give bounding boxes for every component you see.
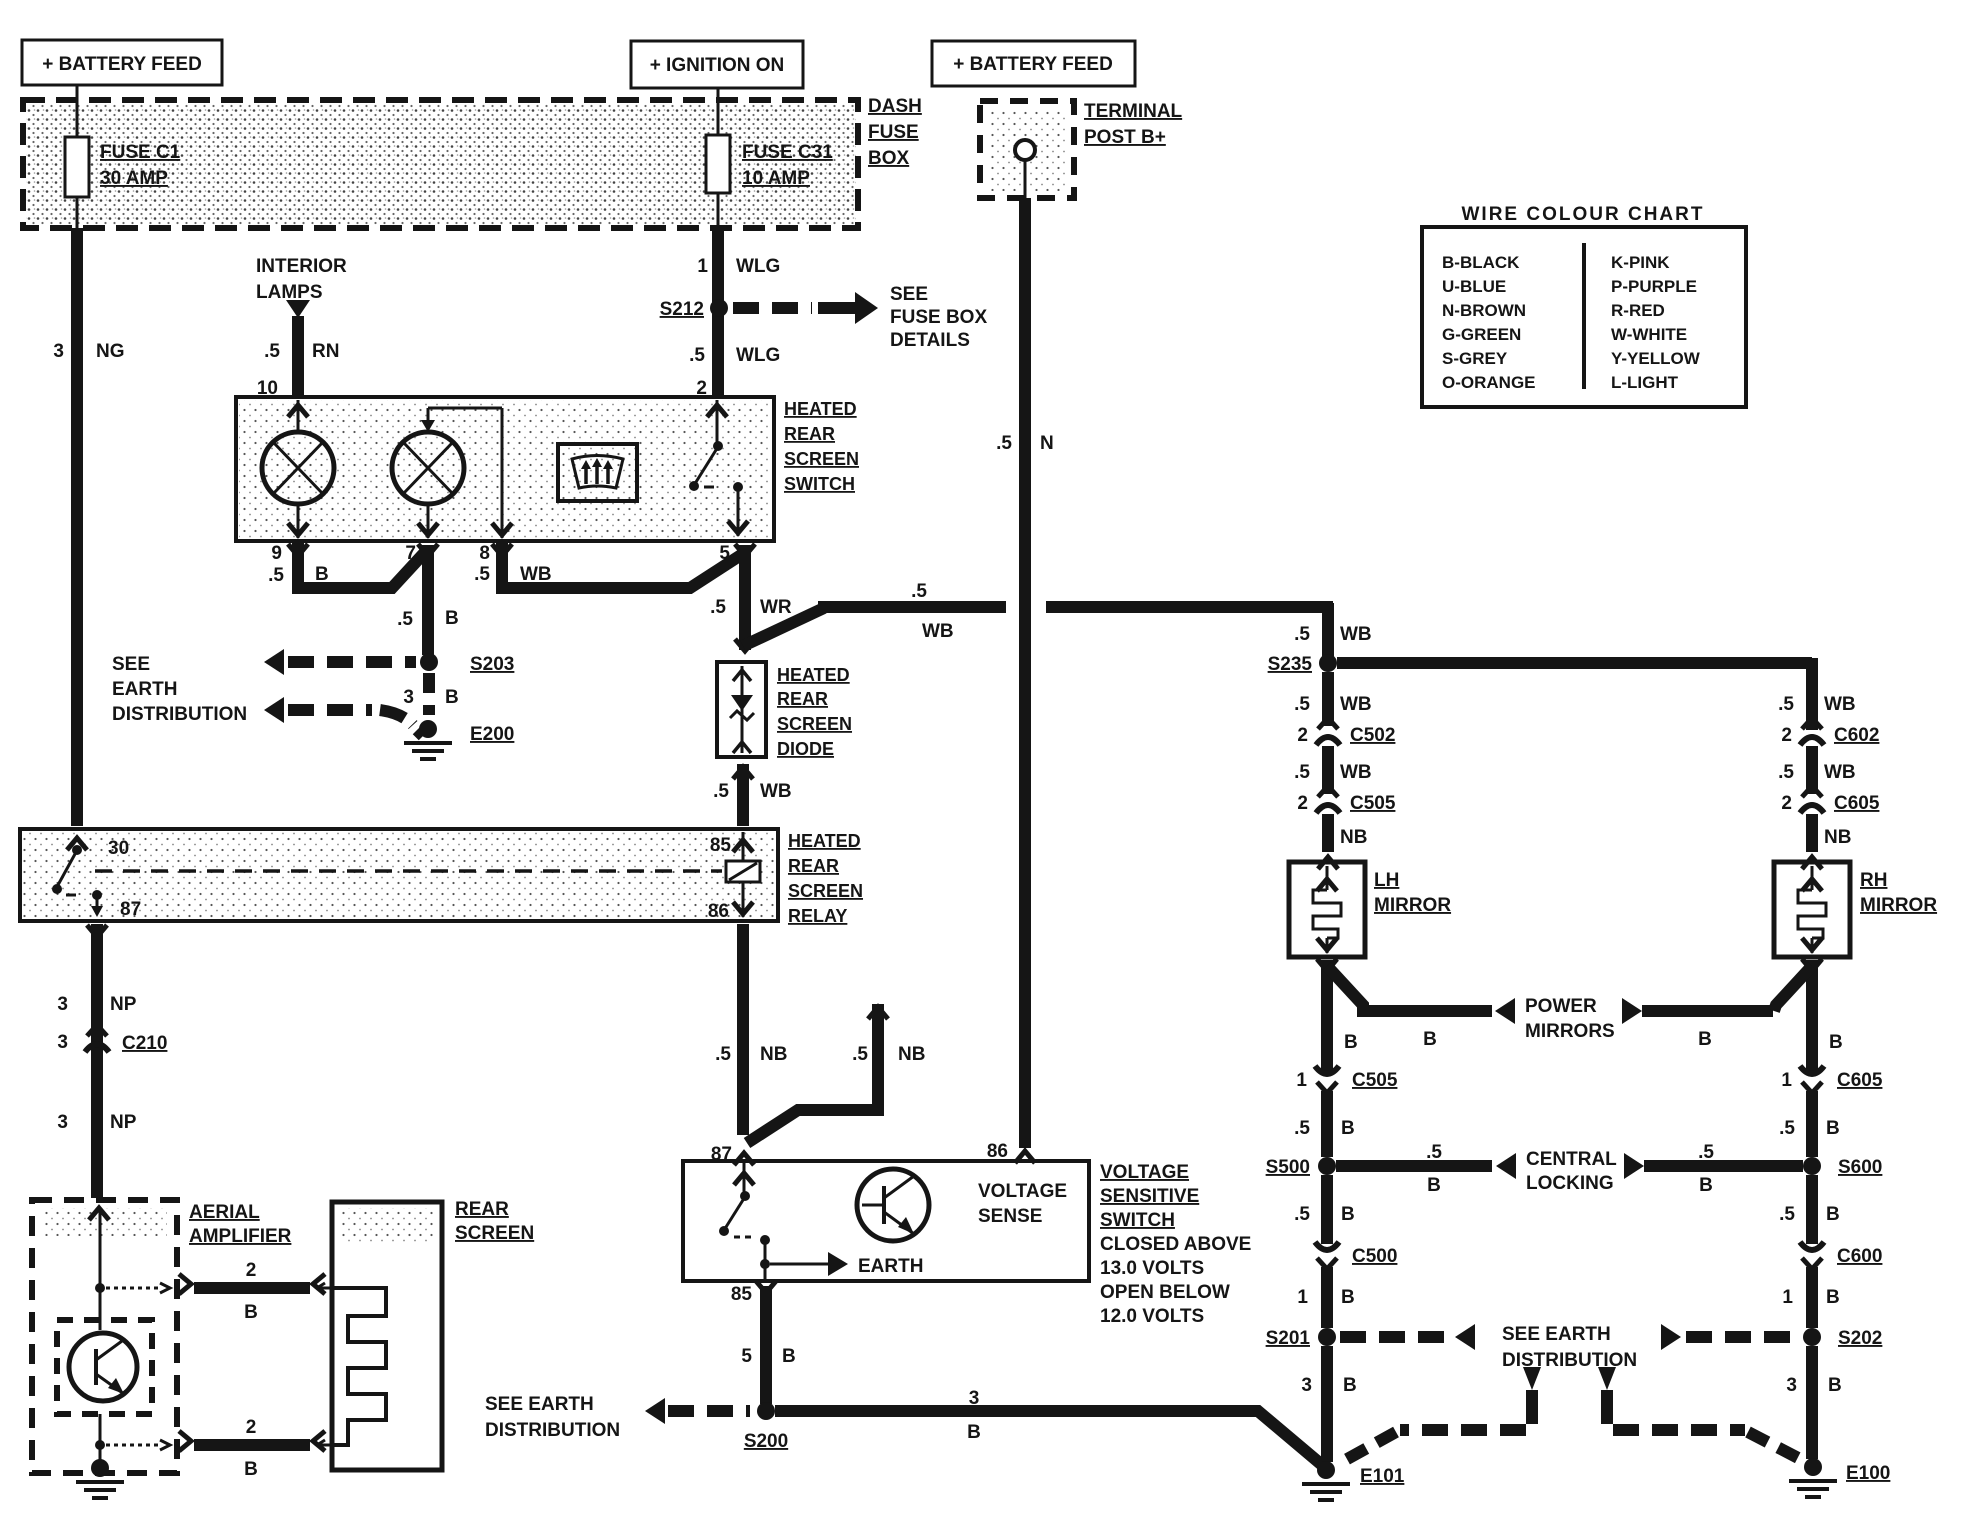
svg-text:9: 9 (271, 543, 282, 564)
svg-text:LOCKING: LOCKING (1526, 1173, 1614, 1194)
svg-text:.5: .5 (996, 433, 1012, 454)
svg-text:WLG: WLG (736, 345, 780, 366)
svg-text:P-PURPLE: P-PURPLE (1611, 277, 1697, 296)
svg-text:B: B (1344, 1032, 1358, 1053)
svg-text:B: B (1699, 1175, 1713, 1196)
svg-text:HEATED: HEATED (788, 831, 861, 851)
svg-text:WB: WB (1340, 762, 1372, 783)
svg-text:CENTRAL: CENTRAL (1526, 1149, 1617, 1170)
svg-text:+ BATTERY FEED: + BATTERY FEED (42, 54, 202, 75)
svg-text:POWER: POWER (1525, 996, 1597, 1017)
svg-text:WB: WB (1824, 694, 1856, 715)
svg-text:W-WHITE: W-WHITE (1611, 325, 1687, 344)
svg-text:B: B (782, 1346, 796, 1367)
svg-text:S203: S203 (470, 654, 514, 675)
svg-text:C505: C505 (1352, 1070, 1398, 1091)
svg-text:B: B (315, 564, 329, 585)
svg-text:HEATED: HEATED (784, 399, 857, 419)
svg-text:SWITCH: SWITCH (784, 474, 855, 494)
svg-text:5: 5 (741, 1346, 752, 1367)
svg-text:B: B (1826, 1204, 1840, 1225)
svg-text:FUSE: FUSE (868, 122, 919, 143)
svg-text:2: 2 (1297, 793, 1308, 814)
svg-text:.5: .5 (397, 609, 413, 630)
svg-text:REAR: REAR (777, 689, 828, 709)
svg-text:DISTRIBUTION: DISTRIBUTION (485, 1420, 620, 1441)
svg-text:3: 3 (57, 1032, 68, 1053)
svg-text:.5: .5 (1779, 1118, 1795, 1139)
svg-text:B: B (1341, 1118, 1355, 1139)
svg-text:HEATED: HEATED (777, 665, 850, 685)
svg-text:.5: .5 (1426, 1142, 1442, 1163)
svg-text:FUSE C31: FUSE C31 (742, 142, 833, 163)
svg-text:S-GREY: S-GREY (1442, 349, 1508, 368)
svg-text:.5: .5 (1698, 1142, 1714, 1163)
svg-text:VOLTAGE: VOLTAGE (1100, 1162, 1189, 1183)
svg-text:C602: C602 (1834, 725, 1879, 746)
svg-text:REAR: REAR (455, 1199, 509, 1220)
svg-text:.5: .5 (710, 597, 726, 618)
svg-text:C605: C605 (1834, 793, 1880, 814)
svg-text:POST B+: POST B+ (1084, 127, 1166, 148)
svg-text:AMPLIFIER: AMPLIFIER (189, 1226, 292, 1247)
svg-text:10 AMP: 10 AMP (742, 168, 810, 189)
svg-text:.5: .5 (1778, 762, 1794, 783)
svg-text:+ BATTERY FEED: + BATTERY FEED (953, 54, 1113, 75)
svg-text:8: 8 (479, 543, 490, 564)
svg-text:87: 87 (120, 899, 141, 920)
svg-text:NB: NB (760, 1044, 787, 1065)
svg-text:INTERIOR: INTERIOR (256, 256, 347, 277)
svg-text:C502: C502 (1350, 725, 1395, 746)
svg-text:OPEN BELOW: OPEN BELOW (1100, 1282, 1230, 1303)
svg-text:SCREEN: SCREEN (784, 449, 859, 469)
svg-text:B: B (1698, 1029, 1712, 1050)
svg-text:86: 86 (987, 1141, 1008, 1162)
svg-text:B: B (1829, 1032, 1843, 1053)
svg-text:3: 3 (57, 994, 68, 1015)
svg-text:NG: NG (96, 341, 125, 362)
svg-text:R-RED: R-RED (1611, 301, 1665, 320)
svg-text:3: 3 (403, 687, 414, 708)
svg-text:K-PINK: K-PINK (1611, 253, 1670, 272)
svg-text:WIRE COLOUR CHART: WIRE COLOUR CHART (1462, 204, 1705, 225)
svg-text:EARTH: EARTH (112, 679, 177, 700)
svg-text:.5: .5 (1779, 1204, 1795, 1225)
svg-text:WB: WB (1340, 694, 1372, 715)
svg-text:B: B (1826, 1118, 1840, 1139)
svg-text:.5: .5 (715, 1044, 731, 1065)
svg-text:B: B (244, 1302, 258, 1323)
svg-text:SEE EARTH: SEE EARTH (485, 1394, 594, 1415)
svg-text:2: 2 (246, 1417, 257, 1438)
svg-text:B: B (445, 687, 459, 708)
svg-text:Y-YELLOW: Y-YELLOW (1611, 349, 1701, 368)
svg-text:B-BLACK: B-BLACK (1442, 253, 1520, 272)
svg-text:1: 1 (1781, 1070, 1792, 1091)
svg-text:EARTH: EARTH (858, 1256, 923, 1277)
svg-text:TERMINAL: TERMINAL (1084, 101, 1183, 122)
svg-text:DIODE: DIODE (777, 739, 834, 759)
svg-text:85: 85 (731, 1284, 753, 1305)
svg-text:B: B (1427, 1175, 1441, 1196)
svg-text:AERIAL: AERIAL (189, 1202, 260, 1223)
svg-text:.5: .5 (1294, 624, 1310, 645)
svg-text:2: 2 (1781, 793, 1792, 814)
svg-text:BOX: BOX (868, 148, 910, 169)
svg-text:30 AMP: 30 AMP (100, 168, 168, 189)
svg-text:S235: S235 (1268, 654, 1313, 675)
svg-text:1: 1 (1782, 1287, 1793, 1308)
svg-text:.5: .5 (264, 341, 280, 362)
svg-text:LH: LH (1374, 870, 1399, 891)
svg-text:C505: C505 (1350, 793, 1396, 814)
svg-text:.5: .5 (474, 564, 490, 585)
svg-text:1: 1 (697, 256, 708, 277)
svg-text:1: 1 (1296, 1070, 1307, 1091)
svg-text:SEE: SEE (112, 654, 150, 675)
svg-text:C500: C500 (1352, 1246, 1397, 1267)
svg-text:NP: NP (110, 994, 137, 1015)
svg-text:SCREEN: SCREEN (777, 714, 852, 734)
svg-text:B: B (967, 1422, 981, 1443)
svg-text:SCREEN: SCREEN (788, 881, 863, 901)
svg-text:SEE: SEE (890, 284, 928, 305)
svg-text:NB: NB (898, 1044, 925, 1065)
svg-text:.5: .5 (911, 581, 927, 602)
svg-text:.5: .5 (1294, 1204, 1310, 1225)
svg-text:.5: .5 (1294, 694, 1310, 715)
svg-text:SCREEN: SCREEN (455, 1223, 534, 1244)
svg-text:B: B (1423, 1029, 1437, 1050)
svg-text:RN: RN (312, 341, 339, 362)
svg-text:N: N (1040, 433, 1054, 454)
svg-text:.5: .5 (852, 1044, 868, 1065)
svg-text:C210: C210 (122, 1033, 167, 1054)
svg-text:S200: S200 (744, 1431, 788, 1452)
svg-text:NP: NP (110, 1112, 137, 1133)
svg-text:O-ORANGE: O-ORANGE (1442, 373, 1536, 392)
svg-text:S212: S212 (660, 299, 704, 320)
svg-text:RH: RH (1860, 870, 1887, 891)
svg-text:DISTRIBUTION: DISTRIBUTION (1502, 1350, 1637, 1371)
svg-text:B: B (1341, 1204, 1355, 1225)
svg-text:WLG: WLG (736, 256, 780, 277)
svg-text:85: 85 (710, 835, 732, 856)
svg-text:B: B (1828, 1375, 1842, 1396)
svg-text:SENSITIVE: SENSITIVE (1100, 1186, 1199, 1207)
svg-text:MIRROR: MIRROR (1374, 895, 1451, 916)
svg-text:SWITCH: SWITCH (1100, 1210, 1175, 1231)
svg-text:3: 3 (969, 1388, 980, 1409)
svg-text:1: 1 (1297, 1287, 1308, 1308)
svg-text:N-BROWN: N-BROWN (1442, 301, 1526, 320)
svg-text:.5: .5 (1294, 1118, 1310, 1139)
svg-text:B: B (244, 1459, 258, 1480)
svg-text:S201: S201 (1266, 1328, 1311, 1349)
svg-text:FUSE C1: FUSE C1 (100, 142, 181, 163)
svg-text:G-GREEN: G-GREEN (1442, 325, 1521, 344)
svg-text:C605: C605 (1837, 1070, 1883, 1091)
svg-text:30: 30 (108, 838, 129, 859)
svg-text:DASH: DASH (868, 96, 922, 117)
svg-text:.5: .5 (268, 565, 284, 586)
svg-text:86: 86 (708, 901, 729, 922)
svg-text:L-LIGHT: L-LIGHT (1611, 373, 1679, 392)
svg-text:2: 2 (1297, 725, 1308, 746)
svg-text:3: 3 (53, 341, 64, 362)
svg-text:B: B (1826, 1287, 1840, 1308)
svg-text:S202: S202 (1838, 1328, 1882, 1349)
svg-text:REAR: REAR (788, 856, 839, 876)
svg-text:.5: .5 (713, 781, 729, 802)
svg-text:.5: .5 (689, 345, 705, 366)
svg-text:3: 3 (1786, 1375, 1797, 1396)
svg-text:.5: .5 (1294, 762, 1310, 783)
svg-text:B: B (1341, 1287, 1355, 1308)
svg-text:E101: E101 (1360, 1466, 1405, 1487)
svg-text:+ IGNITION ON: + IGNITION ON (650, 55, 785, 76)
svg-text:2: 2 (246, 1260, 257, 1281)
svg-text:2: 2 (1781, 725, 1792, 746)
svg-text:S600: S600 (1838, 1157, 1882, 1178)
svg-text:FUSE BOX: FUSE BOX (890, 307, 987, 328)
svg-text:WB: WB (1340, 624, 1372, 645)
svg-text:WB: WB (922, 621, 954, 642)
svg-text:3: 3 (1301, 1375, 1312, 1396)
svg-text:WB: WB (760, 781, 792, 802)
svg-text:WB: WB (1824, 762, 1856, 783)
svg-text:NB: NB (1340, 827, 1367, 848)
svg-text:13.0 VOLTS: 13.0 VOLTS (1100, 1258, 1204, 1279)
svg-text:VOLTAGE: VOLTAGE (978, 1181, 1067, 1202)
svg-text:SEE EARTH: SEE EARTH (1502, 1324, 1611, 1345)
svg-text:B: B (445, 608, 459, 629)
svg-text:DISTRIBUTION: DISTRIBUTION (112, 704, 247, 725)
svg-text:WR: WR (760, 597, 792, 618)
svg-text:3: 3 (57, 1112, 68, 1133)
svg-text:C600: C600 (1837, 1246, 1882, 1267)
svg-text:SENSE: SENSE (978, 1206, 1042, 1227)
svg-text:MIRRORS: MIRRORS (1525, 1021, 1615, 1042)
svg-text:E100: E100 (1846, 1463, 1890, 1484)
svg-text:12.0 VOLTS: 12.0 VOLTS (1100, 1306, 1204, 1327)
svg-text:B: B (1343, 1375, 1357, 1396)
svg-text:DETAILS: DETAILS (890, 330, 970, 351)
svg-text:CLOSED ABOVE: CLOSED ABOVE (1100, 1234, 1251, 1255)
svg-text:MIRROR: MIRROR (1860, 895, 1937, 916)
svg-text:NB: NB (1824, 827, 1851, 848)
svg-text:REAR: REAR (784, 424, 835, 444)
svg-text:S500: S500 (1266, 1157, 1310, 1178)
svg-text:E200: E200 (470, 724, 514, 745)
svg-text:RELAY: RELAY (788, 906, 847, 926)
svg-text:WB: WB (520, 564, 552, 585)
svg-text:.5: .5 (1778, 694, 1794, 715)
svg-text:U-BLUE: U-BLUE (1442, 277, 1506, 296)
svg-text:LAMPS: LAMPS (256, 282, 323, 303)
